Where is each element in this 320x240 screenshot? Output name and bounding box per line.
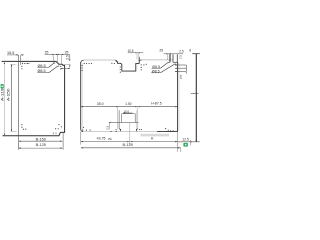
svg-text:2.5: 2.5 bbox=[179, 50, 184, 54]
svg-text:1.50: 1.50 bbox=[125, 102, 131, 106]
svg-text:15.5: 15.5 bbox=[7, 51, 14, 55]
svg-text:10.5: 10.5 bbox=[128, 49, 134, 53]
svg-text:43.75: 43.75 bbox=[97, 136, 106, 140]
svg-text:12.5: 12.5 bbox=[182, 137, 189, 141]
svg-text:25: 25 bbox=[159, 49, 163, 53]
svg-text:150: 150 bbox=[108, 137, 112, 141]
svg-text:25: 25 bbox=[65, 51, 69, 55]
svg-text:2.5: 2.5 bbox=[179, 74, 183, 79]
svg-text:2.5: 2.5 bbox=[105, 125, 109, 129]
svg-text:B-125: B-125 bbox=[36, 143, 46, 147]
svg-text:H-87.5: H-87.5 bbox=[151, 102, 162, 106]
svg-text:35.0: 35.0 bbox=[97, 102, 104, 106]
svg-text:6: 6 bbox=[189, 48, 191, 52]
svg-text:B-150: B-150 bbox=[36, 138, 46, 142]
svg-text:B-125: B-125 bbox=[123, 143, 133, 147]
svg-text:2.5: 2.5 bbox=[65, 55, 69, 60]
svg-text:2.5: 2.5 bbox=[179, 55, 183, 59]
svg-text:25: 25 bbox=[45, 50, 49, 54]
svg-text:A-110: A-110 bbox=[0, 88, 5, 101]
svg-text:A-150: A-150 bbox=[6, 88, 11, 101]
